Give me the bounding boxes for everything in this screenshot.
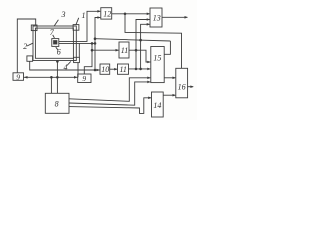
wire 11a output to block15 input2 <box>129 50 150 62</box>
wire block10 to 11b <box>110 68 117 70</box>
arrowhead into block12 input1 <box>97 10 100 13</box>
wire block8 output3 to block14 input <box>69 98 151 114</box>
svg-text:9: 9 <box>82 74 86 83</box>
block 12 <box>101 8 112 19</box>
wire 11b output to block15 input3 <box>129 68 151 70</box>
arrowhead into block15 input4 <box>147 77 150 80</box>
junction block12 out <box>124 13 127 16</box>
wire horizontal y77 between 9L and 9R <box>24 76 79 78</box>
label 2 <box>23 42 33 51</box>
wire block14 output to block16 input2 <box>163 94 175 96</box>
arrowhead block13 output <box>185 16 188 19</box>
wire riser x140 to block13 input3 <box>141 24 150 69</box>
svg-text:13: 13 <box>153 14 161 23</box>
junction bus at riser x95 <box>94 37 97 40</box>
block 9 right <box>78 74 91 83</box>
junction 11b out x140 <box>139 68 142 71</box>
corner square bottom-left <box>27 56 33 61</box>
svg-text:15: 15 <box>153 53 161 62</box>
wire block8 output1 to block15 input4 <box>69 78 150 102</box>
wire vessel bottom to block8 input 2 <box>56 61 58 93</box>
block 11a <box>119 42 129 58</box>
arrowhead into block12 input2 <box>97 16 100 19</box>
arrowhead into block13 input1 <box>147 13 150 16</box>
svg-text:8: 8 <box>55 99 59 108</box>
arrowhead into 11b <box>114 68 117 71</box>
junction 11a out x136 <box>135 49 138 52</box>
junction riser x140 on bus <box>139 39 142 42</box>
wire 9L top to vessel top-left <box>17 19 35 73</box>
junction x92 on box7 lower lead <box>91 42 94 45</box>
wire bottom-left corner square stub and H70 run <box>30 61 100 70</box>
wire block16 output <box>187 86 193 88</box>
svg-text:7: 7 <box>50 28 55 37</box>
svg-text:3: 3 <box>61 10 66 19</box>
arrowhead into block 10 <box>97 69 100 72</box>
arrowhead into 9L <box>24 76 28 79</box>
wire bus y39 <box>95 39 170 41</box>
arrowhead into block16 input1 <box>173 77 176 80</box>
sensor box 7 <box>52 39 59 47</box>
svg-text:11: 11 <box>121 46 128 55</box>
block 10 <box>100 64 110 74</box>
wire 11a input from node x92 <box>84 43 92 74</box>
arrowhead into block13 input2 <box>147 18 150 21</box>
junction on vessel bottom <box>56 60 59 63</box>
block 8 <box>45 93 69 113</box>
block 15 <box>151 47 164 83</box>
svg-text:9: 9 <box>16 72 20 81</box>
wire box7 upper lead to block12 input1 <box>59 11 100 41</box>
wire block12 branch to block16 top <box>125 14 182 68</box>
label 1 <box>76 11 86 25</box>
junction 11b out x136 <box>135 68 138 71</box>
wire block8 output2 to block15 input5 <box>69 82 150 105</box>
arrowhead into 9R <box>74 76 77 79</box>
wire box7 lower lead <box>59 42 95 44</box>
junction y77 x57 <box>56 76 59 79</box>
block 14 <box>152 92 164 117</box>
arrowhead into block16 input2 <box>173 94 176 97</box>
arrowhead block16 output <box>190 85 193 88</box>
arrowhead into block15 input3 <box>147 68 150 71</box>
wire block15 output to block16 input1 <box>164 77 175 79</box>
junction y77 x51 <box>50 76 53 79</box>
svg-text:10: 10 <box>101 65 109 74</box>
label 4 <box>64 61 71 71</box>
block 9 left <box>13 72 24 81</box>
vessel inner wall 2 <box>35 28 73 58</box>
svg-text:14: 14 <box>153 101 161 110</box>
block 11b <box>118 64 129 74</box>
block 16 <box>176 68 188 98</box>
label 6 <box>56 47 61 56</box>
wire block12 output to block13 input1 <box>112 13 150 15</box>
arrowhead into block14 <box>148 97 151 100</box>
wire bottom-right corner square stub down <box>77 63 79 78</box>
arrowhead into block15 input2 <box>147 61 150 64</box>
arrowhead into block15 input5 <box>147 81 150 84</box>
corner square top-right <box>73 25 79 31</box>
label 3 <box>54 10 66 26</box>
svg-text:11: 11 <box>120 65 127 74</box>
block 13 <box>150 8 162 27</box>
wire block8 input 1 <box>50 77 52 93</box>
svg-text:4: 4 <box>64 63 68 72</box>
svg-text:16: 16 <box>178 83 186 92</box>
sensor element 5 (dark inner square) <box>54 41 57 44</box>
svg-text:1: 1 <box>82 11 86 20</box>
junction H70 riser <box>94 69 97 72</box>
wire box7 lower lead branch down to bottom-right corner square <box>78 43 80 57</box>
corner square top-left <box>31 25 37 31</box>
junction x92 y50 <box>91 49 94 52</box>
arrowhead into 11a <box>116 49 119 52</box>
wire into 11a <box>92 49 119 51</box>
svg-text:2: 2 <box>23 42 27 51</box>
wire riser x136 to block13 input2 <box>136 20 150 69</box>
wire riser x95 to block12 input2 <box>95 18 100 71</box>
arrowhead into block13 input3 <box>147 23 150 26</box>
junction box7 lower at riser <box>94 42 97 45</box>
label 7 <box>50 28 55 38</box>
vessel outer wall 1 <box>33 26 76 61</box>
wire bus branch into block15 right side <box>164 41 170 54</box>
corner square bottom-right <box>74 57 80 62</box>
wire block13 output <box>162 16 188 18</box>
svg-text:12: 12 <box>103 10 111 19</box>
